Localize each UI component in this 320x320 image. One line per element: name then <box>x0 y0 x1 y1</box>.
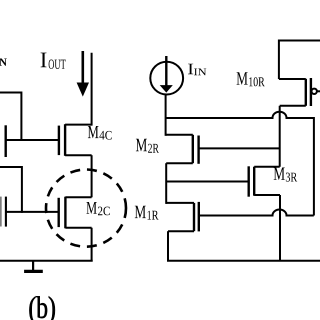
current source I_IN <box>150 56 183 95</box>
label M_2C <box>87 202 110 215</box>
ground rail of right circuit <box>167 260 320 262</box>
label M_10R <box>237 72 265 86</box>
transistor M_4C <box>59 124 92 156</box>
transistor M_3C gate bar (partial at left edge) <box>4 125 6 157</box>
label M_1R <box>135 206 159 220</box>
wire I_IN net mid vertical between M_2R and M_1R <box>165 163 167 204</box>
label M_2R <box>136 139 159 153</box>
label M_4C <box>88 126 112 140</box>
wire M_10R source down to M_3R drain <box>279 106 281 167</box>
ground rail of left circuit <box>0 260 93 262</box>
wire I_OUT vertical to M_4C drain <box>91 53 93 126</box>
label I_OUT <box>41 53 66 69</box>
wire M_2C source to ground rail <box>91 228 93 261</box>
wire I_IN vertical from source to M_2R <box>165 95 167 136</box>
transistor M_2C <box>59 197 92 229</box>
wire second-row input corner <box>0 167 22 213</box>
transistor M_10R (PMOS, mirrored, gate at right) <box>279 41 320 107</box>
wire gate net of M_4C <box>6 139 59 141</box>
label (b) <box>29 296 55 320</box>
wire gate net of M_2C <box>6 211 59 213</box>
wire top-left input corner <box>0 93 21 142</box>
label I_IN of left circuit (cropped at edge, subscript N visible) <box>0 59 7 66</box>
arrow I_OUT current direction <box>77 51 89 97</box>
wire M_3R source down to ground rail <box>279 195 281 261</box>
ground symbol <box>24 261 43 272</box>
transistor M_3R <box>249 166 280 196</box>
highlight dashed circle around M_2C <box>46 170 126 247</box>
transistor M_1C channel bar (partial, grey, at left edge) <box>0 197 2 227</box>
transistor M_1R (channel inline, gate bar at right) <box>166 202 314 232</box>
label I_IN <box>188 64 206 75</box>
wire M_1R return to ground rail <box>167 231 169 261</box>
wire gate net of M_3R <box>166 181 249 183</box>
transistor M_2R (channel inline, gate bar at right) <box>166 135 280 164</box>
wire I_IN branch over hop to M_1R gate bypass <box>166 112 314 216</box>
transistor M_1C gate bar (partial) <box>5 197 7 227</box>
label M_3R <box>274 168 298 182</box>
wire M_4C source to M_2C drain <box>91 155 93 197</box>
